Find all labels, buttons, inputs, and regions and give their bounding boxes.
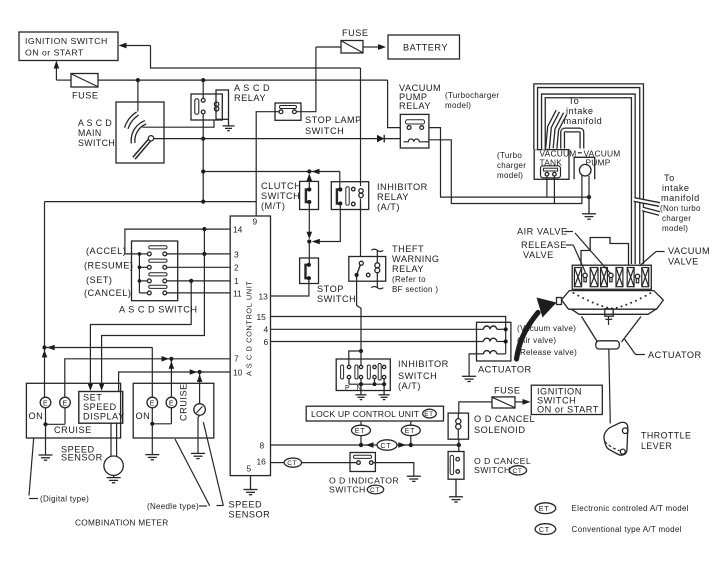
svg-text:(Turbocharger: (Turbocharger xyxy=(445,91,499,100)
svg-text:E: E xyxy=(150,401,155,408)
wire: indicator to ground xyxy=(373,463,414,477)
big curved arrow xyxy=(517,298,557,360)
svg-text:Conventional type A/T model: Conventional type A/T model xyxy=(572,525,682,534)
svg-text:ET: ET xyxy=(424,411,433,418)
svg-text:THEFT: THEFT xyxy=(392,244,424,254)
svg-text:E: E xyxy=(43,401,48,408)
lamp E2 digital xyxy=(60,397,71,408)
wire: pin 2 line xyxy=(167,266,231,268)
wire: fuse to battery arrow xyxy=(363,44,386,50)
wire: theft relay output jog down xyxy=(357,275,361,351)
svg-text:3: 3 xyxy=(234,250,239,260)
hose: inner loop to actuator xyxy=(543,96,633,264)
ASCD switch assembly xyxy=(84,241,197,315)
svg-text:(Refer to: (Refer to xyxy=(392,275,426,284)
svg-text:8: 8 xyxy=(260,440,265,450)
svg-text:CRUISE: CRUISE xyxy=(54,425,92,435)
lamp E1 digital xyxy=(40,397,51,408)
svg-text:(Non turbo: (Non turbo xyxy=(660,204,701,213)
wire: relay coil right to pump line B xyxy=(426,141,429,143)
svg-text:SPEED: SPEED xyxy=(83,402,117,412)
svg-text:RELEASE: RELEASE xyxy=(521,240,567,250)
hose: U hose tank to pump xyxy=(563,130,582,149)
svg-text:DISPLAY: DISPLAY xyxy=(83,412,125,422)
ground: pump xyxy=(582,197,596,219)
svg-text:RELAY: RELAY xyxy=(392,264,424,274)
ground: od indicator xyxy=(407,476,421,481)
switch row SET xyxy=(147,273,167,283)
svg-text:intake: intake xyxy=(566,106,594,116)
ground: speedometer xyxy=(191,453,205,458)
svg-text:6: 6 xyxy=(264,337,269,347)
wire: relay contact vertical through dots xyxy=(202,80,204,202)
diode D1 xyxy=(377,135,400,143)
svg-text:FUSE: FUSE xyxy=(494,386,521,396)
hose: right stub to intake (non turbo) upper xyxy=(634,200,660,205)
wire: solenoid to fuse xyxy=(459,402,492,413)
svg-text:15: 15 xyxy=(257,312,267,322)
svg-text:Electronic controled A/T model: Electronic controled A/T model xyxy=(572,504,689,513)
lamp E1 needle xyxy=(147,397,158,408)
svg-text:manifold: manifold xyxy=(564,116,603,126)
wire: speedometer to ground xyxy=(198,415,200,453)
svg-text:STOP LAMP: STOP LAMP xyxy=(305,115,362,125)
wire: solenoid bottom to pin8 line and od cancel switch xyxy=(458,439,460,451)
svg-text:MAIN: MAIN xyxy=(78,128,102,138)
switch row RESUME xyxy=(147,259,167,269)
svg-text:14: 14 xyxy=(233,225,243,235)
wire: pin 11 line xyxy=(167,292,231,294)
svg-text:16: 16 xyxy=(257,456,267,466)
wire: arc contact to ASCD relay coil xyxy=(143,120,215,128)
svg-text:1: 1 xyxy=(234,276,239,286)
svg-text:A S C D: A S C D xyxy=(234,83,270,93)
svg-text:CT: CT xyxy=(370,487,380,494)
svg-text:(SET): (SET) xyxy=(86,275,113,285)
svg-text:(RESUME): (RESUME) xyxy=(84,261,133,271)
svg-text:SENSOR: SENSOR xyxy=(229,510,271,520)
actuator assembly drawing xyxy=(557,238,664,424)
stop switch xyxy=(300,258,357,304)
inhibitor relay xyxy=(331,182,427,212)
svg-text:intake: intake xyxy=(662,183,690,193)
svg-text:charger: charger xyxy=(662,214,691,223)
svg-text:ON: ON xyxy=(136,411,151,421)
wire: tank terminal risers xyxy=(546,176,548,197)
speedometer dial xyxy=(194,404,206,416)
ignition switch box (top left) xyxy=(19,32,118,61)
stepped housing on top xyxy=(581,238,629,266)
clutch switch wiring junction xyxy=(201,169,340,190)
svg-text:To: To xyxy=(664,173,675,183)
svg-text:WARNING: WARNING xyxy=(392,254,440,264)
ground: digital meter xyxy=(39,455,53,460)
wire: fuse to ignition box arrow xyxy=(515,399,531,405)
svg-text:SWITCH: SWITCH xyxy=(329,484,366,494)
svg-text:INHIBITOR: INHIBITOR xyxy=(398,359,449,369)
wire: inhibitor switch ground bus xyxy=(349,379,386,387)
wire: stop lamp left pin to control unit pin 9 xyxy=(256,112,279,216)
wire: pin 15 line to actuator coils xyxy=(271,317,506,354)
svg-text:STOP: STOP xyxy=(317,284,344,294)
svg-text:SWITCH: SWITCH xyxy=(317,294,356,304)
svg-text:VALVE: VALVE xyxy=(668,257,699,267)
svg-text:FUSE: FUSE xyxy=(342,28,369,38)
svg-text:ACTUATOR: ACTUATOR xyxy=(648,350,702,360)
wire: long vertical feed (ignition line down to inhibitor switch) xyxy=(360,68,362,257)
svg-text:SWITCH: SWITCH xyxy=(474,465,511,475)
wire: pin 7 line to meters xyxy=(65,356,230,397)
svg-text:A S C D: A S C D xyxy=(78,118,112,128)
fuse F3 xyxy=(492,386,521,409)
svg-text:model): model) xyxy=(497,171,523,180)
svg-text:(ACCEL): (ACCEL) xyxy=(86,246,126,256)
ground: od cancel switch xyxy=(449,479,463,502)
wire: pin 8 line xyxy=(271,440,461,450)
lamp E2 needle xyxy=(166,397,177,408)
svg-text:(Release valve): (Release valve) xyxy=(517,348,577,357)
svg-text:10: 10 xyxy=(233,368,243,378)
svg-text:E: E xyxy=(169,401,174,408)
node: pump ground junction xyxy=(587,195,591,199)
wire: relay contact right to tank line A xyxy=(429,128,589,198)
wire: pin 6 line xyxy=(271,341,484,343)
svg-text:LEVER: LEVER xyxy=(641,441,672,451)
combination meter digital box xyxy=(26,383,120,438)
svg-text:RELAY: RELAY xyxy=(399,101,431,111)
svg-text:CLUTCH: CLUTCH xyxy=(261,181,301,191)
svg-text:LOCK UP CONTROL UNIT: LOCK UP CONTROL UNIT xyxy=(311,409,420,419)
clutch switch xyxy=(261,174,319,212)
svg-text:BATTERY: BATTERY xyxy=(403,43,448,53)
od indicator switch xyxy=(329,453,399,495)
air valve stem xyxy=(583,273,587,282)
ground: inhibitor switch right xyxy=(379,384,390,399)
svg-text:COMBINATION METER: COMBINATION METER xyxy=(75,517,169,527)
theft warning relay xyxy=(349,244,440,294)
svg-text:CT: CT xyxy=(513,468,523,475)
od cancel solenoid xyxy=(448,413,535,439)
wire: stop lamp right pin up to fuse line xyxy=(296,47,316,112)
svg-text:2: 2 xyxy=(234,263,239,273)
svg-text:TANK: TANK xyxy=(540,158,563,168)
diaphragm dome xyxy=(562,291,664,310)
wire: needle lamps to ground xyxy=(150,408,171,455)
svg-text:THROTTLE: THROTTLE xyxy=(641,431,691,441)
combination meter needle box xyxy=(133,383,214,438)
svg-text:O D CANCEL: O D CANCEL xyxy=(474,414,535,424)
svg-text:IGNITION SWITCH: IGNITION SWITCH xyxy=(25,36,108,46)
svg-text:ACTUATOR: ACTUATOR xyxy=(478,365,532,375)
hose: outer loop tank to actuator xyxy=(536,86,642,264)
wire: switch common bus xyxy=(138,252,148,293)
svg-text:(CANCEL): (CANCEL) xyxy=(84,288,131,298)
svg-text:VACUUM: VACUUM xyxy=(668,246,710,256)
svg-text:E: E xyxy=(63,401,68,408)
wire: digital lamps to ground xyxy=(43,408,65,455)
svg-text:AIR VALVE: AIR VALVE xyxy=(517,227,568,237)
svg-text:SWITCH: SWITCH xyxy=(261,191,300,201)
wire: set-speed branch from pin 1 junction xyxy=(88,281,192,391)
svg-text:SET: SET xyxy=(83,393,102,403)
svg-text:SENSOR: SENSOR xyxy=(61,452,103,462)
ground: inhibitor switch left xyxy=(356,384,367,399)
svg-text:RELAY: RELAY xyxy=(234,93,266,103)
wire: pin 3 line xyxy=(167,252,231,256)
vacuum tank xyxy=(534,149,576,180)
fuse F1 xyxy=(56,74,98,101)
hose: intake stub B xyxy=(555,114,565,149)
dotted diaphragm arc xyxy=(573,292,652,309)
wire: left trunk to meter junction xyxy=(42,202,153,398)
svg-text:SOLENOID: SOLENOID xyxy=(474,425,525,435)
svg-text:7: 7 xyxy=(234,354,239,364)
ET connector right xyxy=(401,421,420,445)
svg-text:P: P xyxy=(345,385,350,392)
vacuum pump relay xyxy=(399,83,499,148)
svg-text:charger: charger xyxy=(497,161,526,170)
svg-text:9: 9 xyxy=(253,216,258,226)
svg-text:11: 11 xyxy=(233,289,242,299)
svg-text:BF section ): BF section ) xyxy=(392,285,438,294)
svg-text:manifold: manifold xyxy=(661,193,700,203)
callout: digital type xyxy=(29,438,89,504)
ground: speed sensor ball xyxy=(107,475,121,482)
wire: feed into inhibitor switch xyxy=(349,349,363,365)
wire: pin 10 line to speedometer xyxy=(119,369,231,404)
ground: control unit pin 5 xyxy=(244,476,258,495)
lock up control unit xyxy=(306,406,443,421)
svg-text:ON: ON xyxy=(29,411,44,421)
svg-text:CT: CT xyxy=(539,525,550,534)
svg-text:ET: ET xyxy=(355,428,366,435)
solenoid valve block xyxy=(572,265,651,289)
svg-text:ET: ET xyxy=(405,428,416,435)
center fitting xyxy=(605,309,613,316)
ground: ASCD relay xyxy=(223,119,235,130)
wire: bus up to pin 14 line xyxy=(125,227,230,254)
svg-text:CRUISE: CRUISE xyxy=(179,383,189,421)
cone xyxy=(582,317,642,343)
svg-text:CT: CT xyxy=(287,460,297,467)
svg-text:SPEED: SPEED xyxy=(229,500,263,510)
svg-text:(A/T): (A/T) xyxy=(377,202,400,212)
svg-text:(Turbo: (Turbo xyxy=(497,151,522,160)
legend ET xyxy=(535,503,689,514)
wire: ignition feed down to fuse bus xyxy=(54,61,60,81)
wire: arrow into ignition switch from right xyxy=(119,43,361,68)
svg-text:INHIBITOR: INHIBITOR xyxy=(377,182,428,192)
set speed display xyxy=(79,392,125,424)
svg-text:model): model) xyxy=(445,101,471,110)
svg-text:VALVE: VALVE xyxy=(523,250,554,260)
battery xyxy=(388,35,460,59)
wire: release coil to ground xyxy=(469,354,483,376)
callout: needle type xyxy=(147,439,210,511)
hose: right stub lower xyxy=(643,209,660,214)
ASCD relay xyxy=(191,83,270,120)
ground: needle lamps xyxy=(145,455,159,460)
svg-text:5: 5 xyxy=(247,463,252,473)
callout: actuator (right) xyxy=(625,339,702,360)
actuator solenoid coils xyxy=(477,322,532,374)
ignition switch box (lower right) xyxy=(531,385,602,414)
hose: intake stub A xyxy=(548,111,558,149)
svg-text:(M/T): (M/T) xyxy=(261,201,285,211)
wire: main bus from fuse to vacuum pump relay xyxy=(98,78,400,128)
wire: set-speed branch from 14/3 junction xyxy=(99,229,205,391)
vacuum valve stem xyxy=(635,274,639,283)
ASCD control unit xyxy=(230,216,270,476)
throttle cable xyxy=(609,349,611,424)
svg-text:SWITCH: SWITCH xyxy=(78,138,115,148)
svg-text:SWITCH: SWITCH xyxy=(398,371,437,381)
stop lamp switch xyxy=(275,103,362,136)
svg-text:A S C D CONTROL UNIT: A S C D CONTROL UNIT xyxy=(244,281,253,377)
ground: actuator coil xyxy=(462,376,476,381)
release valve stem xyxy=(609,273,613,282)
wire: inhibitor relay bottom pin to stop junction xyxy=(312,204,341,245)
vacuum pump xyxy=(574,149,620,180)
throttle lever xyxy=(604,422,691,455)
switch row ACCEL xyxy=(147,246,167,256)
fuse F2 (top) xyxy=(316,28,369,53)
wire: branch to pin-9 line xyxy=(45,200,257,204)
svg-text:RELAY: RELAY xyxy=(377,192,409,202)
wire: pin 16 line with CT xyxy=(271,458,357,467)
svg-text:13: 13 xyxy=(259,292,269,302)
speed sensor ball (digital) xyxy=(61,423,123,475)
svg-text:ON or START: ON or START xyxy=(25,48,84,58)
svg-text:SWITCH: SWITCH xyxy=(305,126,344,136)
svg-text:ET: ET xyxy=(539,504,550,513)
ET connector left xyxy=(352,421,371,445)
callout: speed sensor needle xyxy=(203,422,270,520)
wire: pin 1 line xyxy=(167,279,231,283)
inhibitor switch xyxy=(336,359,449,392)
svg-text:FUSE: FUSE xyxy=(72,91,99,101)
svg-text:4: 4 xyxy=(264,325,269,335)
svg-text:PUMP: PUMP xyxy=(586,158,611,168)
ASCD main switch xyxy=(78,102,164,163)
switch row CANCEL xyxy=(147,285,167,295)
svg-text:(A/T): (A/T) xyxy=(398,381,421,391)
wire: bus drop to ASCD main switch xyxy=(137,80,139,111)
svg-text:ON or START: ON or START xyxy=(537,405,599,415)
callout: vacuum valve xyxy=(640,246,711,267)
callout: air valve xyxy=(517,227,611,274)
svg-text:model): model) xyxy=(662,224,688,233)
wire: clutch to stop switch vertical xyxy=(307,202,313,265)
legend CT xyxy=(535,524,682,535)
callout: release valve xyxy=(521,240,586,273)
wire: stop switch to pin 13 xyxy=(271,278,309,296)
svg-text:(Needle type): (Needle type) xyxy=(147,502,199,511)
wire: pump to junction xyxy=(588,176,590,197)
wire: pin 4 line xyxy=(271,328,484,330)
wire: lever output line to diode xyxy=(154,138,378,140)
svg-text:(Digital type): (Digital type) xyxy=(40,495,89,504)
od cancel switch xyxy=(448,452,531,480)
svg-text:A S C D SWITCH: A S C D SWITCH xyxy=(119,305,197,315)
svg-text:CT: CT xyxy=(381,443,392,450)
